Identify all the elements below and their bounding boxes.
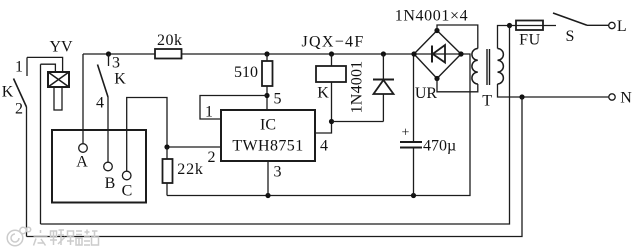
node dot pin2/22k xyxy=(164,144,169,149)
wire switch4 to electrode B xyxy=(107,97,109,162)
diode 1N4001 leads xyxy=(382,54,384,122)
bridge rectifier UR diamond xyxy=(414,31,461,79)
svg-text:1: 1 xyxy=(205,104,213,121)
svg-text:IC: IC xyxy=(260,117,276,134)
capacitor C1 470u bottom lead xyxy=(413,148,415,196)
node dot pin5/pin1 xyxy=(264,93,269,98)
resistor 510 leads xyxy=(266,54,268,110)
switch K contact 1-2 blade xyxy=(14,79,27,108)
resistor 22k leads xyxy=(166,147,168,196)
node dot bridge bottom vertex xyxy=(434,76,439,81)
solenoid valve YV lead 1 xyxy=(27,57,63,72)
switch K contact 3-4 blade xyxy=(98,65,109,98)
resistor 22k body xyxy=(163,159,173,183)
svg-text:C: C xyxy=(122,183,133,200)
wire riser to electrode A xyxy=(82,54,84,144)
svg-text:T: T xyxy=(482,93,492,110)
diode 1N4001 cathode bar xyxy=(373,79,394,81)
svg-text:S: S xyxy=(566,28,575,45)
svg-text:3: 3 xyxy=(274,164,282,181)
node dot rail/510 xyxy=(264,51,269,56)
node dot rail/diode1 xyxy=(381,51,386,56)
bridge rectifier UR middle line xyxy=(414,53,461,55)
electrode box A B C xyxy=(52,130,146,203)
svg-text:YV: YV xyxy=(49,39,73,56)
wire fuse line xyxy=(510,25,557,27)
node dot pin3/ground xyxy=(265,193,270,198)
wire transformer primary bottom / N wire xyxy=(498,84,609,97)
switch K contact 1-2 stub 1 xyxy=(26,57,28,76)
svg-text:K: K xyxy=(114,71,126,88)
solenoid valve YV lead 2 xyxy=(41,64,56,72)
solenoid valve YV plunger xyxy=(54,87,62,110)
wire pin4 xyxy=(315,122,332,134)
wire pin2 xyxy=(167,146,221,148)
switch S blade xyxy=(553,13,587,25)
node dot N wire junction xyxy=(519,94,524,99)
electrode B circle xyxy=(104,162,113,171)
node dot cap/ground xyxy=(411,193,416,198)
fuse FU body xyxy=(516,21,543,31)
terminal N circle xyxy=(609,94,615,100)
wire bottom rail to N (y=236.5) xyxy=(27,97,523,237)
wire ground rail y=195.5 xyxy=(167,54,470,196)
wire YV riser xyxy=(40,64,42,224)
svg-text:UR: UR xyxy=(415,85,438,102)
solenoid valve YV coil X xyxy=(48,72,69,87)
capacitor C1 470u top lead xyxy=(413,54,415,142)
resistor 510 body xyxy=(262,61,273,86)
relay K coil leads xyxy=(331,54,333,122)
svg-text:20k: 20k xyxy=(157,32,183,49)
svg-text:FU: FU xyxy=(519,32,541,49)
transformer T primary winding xyxy=(498,49,504,84)
wire bottom rail to fuse node (y=224) xyxy=(41,26,510,225)
transformer T secondary winding xyxy=(472,49,478,84)
IC U1 TWH8751 body xyxy=(221,110,315,161)
svg-text:1N4001×4: 1N4001×4 xyxy=(395,8,468,25)
svg-text:A: A xyxy=(76,154,88,171)
svg-text:2: 2 xyxy=(208,149,216,166)
node dot rail/switch3 xyxy=(106,51,111,56)
node dot bridge left vertex xyxy=(411,51,416,56)
bridge rectifier UR inner diode triangle xyxy=(433,45,445,63)
svg-text:4: 4 xyxy=(96,95,104,112)
wire pin3 xyxy=(267,161,269,196)
transformer T core xyxy=(487,49,490,85)
svg-text:TWH8751: TWH8751 xyxy=(232,138,303,155)
svg-text:22k: 22k xyxy=(177,161,203,178)
svg-text:4: 4 xyxy=(320,138,328,155)
electrode C circle xyxy=(122,171,131,180)
svg-text:K: K xyxy=(2,84,14,101)
capacitor C1 470u plates xyxy=(400,142,422,148)
wire transformer primary top to fuse node xyxy=(498,26,510,49)
electrode A circle xyxy=(79,144,88,153)
svg-text:1N4001: 1N4001 xyxy=(349,61,366,114)
diode 1N4001 triangle xyxy=(374,80,394,94)
node dot bridge top vertex xyxy=(434,28,439,33)
svg-text:N: N xyxy=(620,90,632,107)
relay K coil body xyxy=(316,66,346,82)
svg-text:3: 3 xyxy=(112,55,120,72)
wire K2 down riser xyxy=(26,107,28,237)
svg-text:JQX−4F: JQX−4F xyxy=(301,34,364,51)
node dot relay/diode/pin4 xyxy=(329,119,334,124)
wire electrode C to pin2 node xyxy=(127,98,167,172)
svg-text:5: 5 xyxy=(274,91,282,108)
svg-text:B: B xyxy=(105,175,116,192)
node dot rail/relay xyxy=(329,51,334,56)
svg-text:+: + xyxy=(402,126,410,141)
node dot fuse junction xyxy=(507,23,512,28)
bridge rectifier UR inner diode bar xyxy=(431,46,433,63)
svg-text:2: 2 xyxy=(15,101,23,118)
svg-text:L: L xyxy=(617,18,627,35)
terminal L circle xyxy=(609,22,615,28)
wire switch S to L terminal xyxy=(587,24,609,26)
wire relay bottom to diode xyxy=(332,121,384,123)
node dot bridge right vertex xyxy=(458,51,463,56)
svg-text:510: 510 xyxy=(234,64,258,81)
svg-text:470µ: 470µ xyxy=(423,138,456,155)
solenoid valve YV coil box xyxy=(48,72,69,87)
wire pin1 bracket xyxy=(200,96,267,120)
switch K contact 3-4 stub 3 xyxy=(108,54,110,66)
wire main +V rail y=54 xyxy=(83,53,414,55)
wire bridge bottom to transformer secondary xyxy=(437,79,478,92)
svg-text:1: 1 xyxy=(15,59,23,76)
wire bridge top to transformer secondary xyxy=(437,25,478,49)
resistor 20k body xyxy=(155,49,182,59)
svg-text:K: K xyxy=(317,85,329,102)
